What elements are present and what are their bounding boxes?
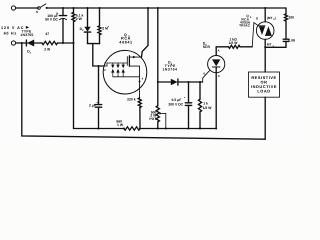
junction rail-drain <box>147 7 149 9</box>
mosfet drain tap <box>129 56 141 58</box>
svg-text:S: S <box>36 10 38 14</box>
potentiometer 500 <box>156 106 159 122</box>
junction R4 top <box>199 81 201 83</box>
capacitor snubber <box>283 38 289 40</box>
junction return drop <box>21 42 23 44</box>
mosfet channel bar <box>128 56 130 66</box>
resistor R7 220k <box>138 98 141 108</box>
svg-text:220 k: 220 k <box>127 97 136 101</box>
wire D1 to R1 <box>34 42 42 44</box>
junction R2 wire <box>73 42 75 44</box>
junction rail-wiper <box>165 128 167 130</box>
wire divider riser <box>157 8 159 82</box>
junction rail-220k <box>139 128 141 130</box>
wire ground rail left <box>74 128 125 130</box>
gate diode pair b <box>117 63 119 65</box>
svg-text:SCR: SCR <box>203 45 211 49</box>
load box <box>249 72 280 97</box>
svg-text:1/2 W: 1/2 W <box>203 106 213 110</box>
junction rail-scr <box>215 128 217 130</box>
svg-text:(MT: (MT <box>267 16 273 20</box>
svg-text:LOAD: LOAD <box>257 88 270 93</box>
terminal AC top <box>11 6 15 10</box>
junction rail-R3 <box>99 7 101 9</box>
triac gate riser <box>252 23 258 47</box>
mosfet gate bar <box>126 57 128 66</box>
scr cathode <box>215 67 217 129</box>
load bottom lead <box>264 97 266 139</box>
junction rail-560 <box>123 128 125 130</box>
diode common bar <box>113 76 140 78</box>
svg-text:200 V DC: 200 V DC <box>168 103 183 107</box>
junction rail-R2 <box>73 7 75 9</box>
terminal AC bottom <box>11 41 15 45</box>
svg-text:50 V DC: 50 V DC <box>45 18 58 22</box>
resistor R5 1k gate <box>229 45 241 48</box>
mosfet gate rail <box>104 63 127 66</box>
junction C1 bottom <box>62 42 64 44</box>
junction gate-C2 <box>98 65 100 67</box>
junction rail-divider <box>157 7 159 9</box>
mosfet source tap <box>129 65 139 67</box>
junction rail-R4 <box>199 128 201 130</box>
svg-text:MT: MT <box>267 43 272 47</box>
switch S1 <box>38 7 41 10</box>
svg-text:TRIAC: TRIAC <box>239 24 251 28</box>
svg-text:60 Hz: 60 Hz <box>4 32 17 36</box>
junction rail-C2 <box>98 128 100 130</box>
svg-text:1 k: 1 k <box>203 102 208 106</box>
resistor R1 <box>42 41 58 44</box>
wire top rail <box>47 7 286 9</box>
scr circle <box>208 56 225 73</box>
mosfet Q1 circle <box>103 50 147 94</box>
svg-text:0.5 μF: 0.5 μF <box>172 98 182 102</box>
capacitor C3 <box>188 82 190 103</box>
wire terminal to D1 <box>16 42 28 44</box>
triac triangles <box>259 26 265 35</box>
capacitor C1 100uF <box>62 8 64 16</box>
junction C3 top <box>188 81 190 83</box>
triac MT1 lead <box>264 39 266 72</box>
resistor R4 1k <box>199 82 201 99</box>
wire divider node <box>88 43 100 45</box>
wire drain riser <box>142 8 149 57</box>
junction snubber tee <box>264 46 266 48</box>
wire D4 to SCR gate <box>178 81 203 83</box>
wire R1 to R2 leg <box>58 42 74 44</box>
junction divider node2 <box>157 81 159 83</box>
resistor R6 560 <box>124 127 140 130</box>
wire terminal to switch <box>16 7 39 9</box>
svg-text:POT: POT <box>149 117 157 121</box>
svg-text:A: A <box>218 49 220 52</box>
junction rail-C3 <box>188 128 190 130</box>
junction rail-C1 <box>62 7 64 9</box>
scr anode wire <box>216 47 228 56</box>
svg-text:1 W: 1 W <box>117 123 124 127</box>
svg-text:): ) <box>275 16 276 20</box>
diode D3 <box>87 8 89 27</box>
diode D1 <box>25 40 27 46</box>
junction divider <box>92 43 94 45</box>
svg-text:40841: 40841 <box>119 41 132 45</box>
scr gate lead <box>202 78 204 82</box>
wire R2 to ground rail <box>73 43 75 129</box>
triac circle <box>256 22 274 40</box>
junction rail-D3 <box>87 7 89 9</box>
gate diode pair c <box>122 63 124 65</box>
wire load return <box>22 43 265 139</box>
junction rail-pot <box>157 128 159 130</box>
capacitor C2 2uF <box>98 66 100 104</box>
svg-text:1N3755: 1N3755 <box>20 33 33 37</box>
svg-text:100: 100 <box>288 16 294 20</box>
svg-text:G: G <box>203 72 205 75</box>
gate diode pair a <box>112 63 114 65</box>
wire riser to pot <box>157 82 159 106</box>
resistor snubber 100 <box>285 8 287 14</box>
svg-text:47: 47 <box>45 32 49 36</box>
junction rail-triac <box>264 7 266 9</box>
svg-text:1/2 W: 1/2 W <box>229 41 239 45</box>
svg-text:2 W: 2 W <box>44 48 51 52</box>
diode D4 <box>171 79 178 85</box>
svg-text:1N3754: 1N3754 <box>162 68 177 72</box>
wire ground rail right <box>140 128 216 130</box>
junction source node <box>139 80 141 82</box>
wire node to D4 <box>158 81 171 83</box>
resistor R3 <box>99 8 101 26</box>
wire gate drop <box>93 44 104 66</box>
svg-text:2 μF: 2 μF <box>89 103 96 107</box>
svg-text:0.08: 0.08 <box>288 39 295 43</box>
scr triangle <box>212 59 220 66</box>
svg-text:K: K <box>218 75 220 78</box>
triac MT2 lead <box>264 8 266 22</box>
svg-text:2 W: 2 W <box>76 17 83 21</box>
resistor R2 <box>73 8 75 12</box>
wire snubber to MT1 <box>265 46 286 48</box>
